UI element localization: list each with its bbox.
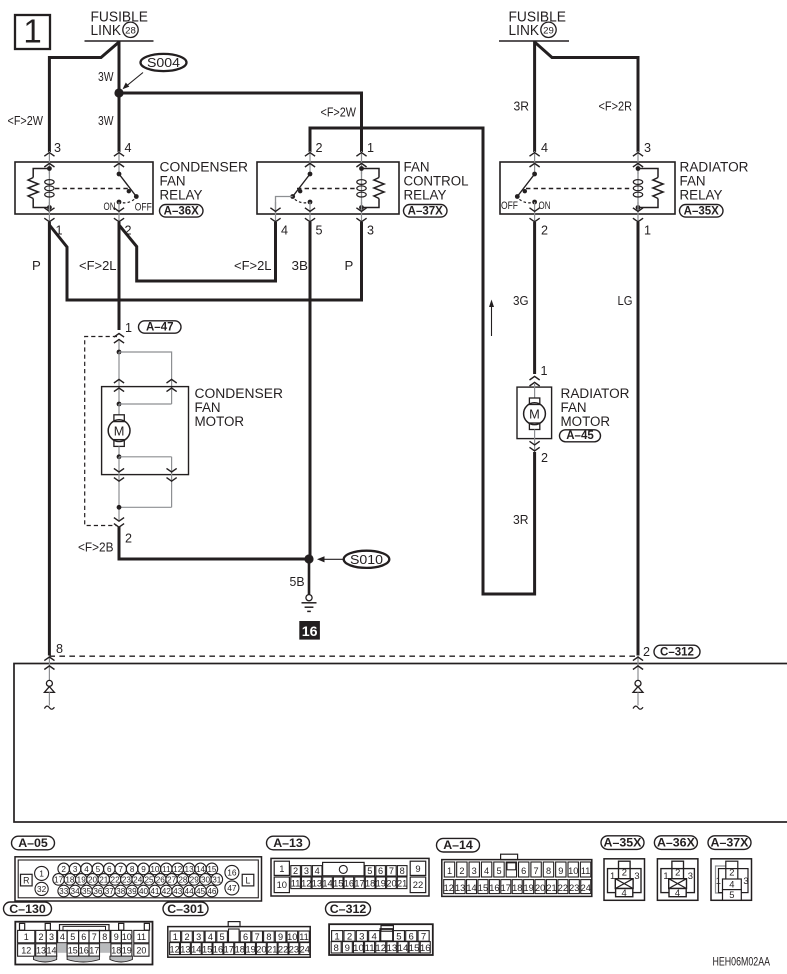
condenser motor pin chevrons bottom left — [118, 457, 120, 520]
svg-text:5: 5 — [729, 889, 734, 900]
svg-text:22: 22 — [558, 883, 568, 893]
svg-text:1: 1 — [23, 13, 41, 50]
fusible link 29 bar — [499, 40, 569, 42]
connector C-312 label — [326, 902, 371, 916]
condenser relay pin 1 — [48, 202, 50, 222]
motor M2 radiator — [524, 403, 546, 425]
condenser motor inner bottom junction — [117, 454, 122, 459]
svg-text:7: 7 — [534, 866, 539, 876]
svg-text:20: 20 — [386, 878, 396, 888]
svg-text:18: 18 — [365, 878, 375, 888]
svg-text:42: 42 — [162, 887, 172, 896]
svg-text:18: 18 — [235, 944, 245, 954]
svg-text:2: 2 — [293, 866, 298, 876]
svg-text:6: 6 — [107, 865, 112, 874]
relay A-37X fan control relay box — [257, 162, 399, 214]
svg-text:16: 16 — [420, 943, 431, 954]
svg-text:6: 6 — [378, 866, 383, 876]
condenser motor pin chevrons top left — [118, 352, 120, 404]
svg-text:ON: ON — [539, 200, 551, 212]
svg-text:<F>2L: <F>2L — [234, 258, 272, 273]
svg-text:1: 1 — [541, 364, 548, 378]
svg-text:FAN: FAN — [561, 400, 587, 415]
svg-text:35: 35 — [82, 887, 92, 896]
svg-text:1: 1 — [334, 932, 339, 943]
svg-text:S010: S010 — [350, 553, 383, 567]
svg-text:29: 29 — [190, 875, 200, 884]
radiator relay pin 4 — [534, 151, 536, 174]
radiator relay pin 1 — [637, 202, 639, 222]
connector chevrons pin 2 — [114, 524, 124, 528]
svg-text:21: 21 — [99, 875, 109, 884]
svg-text:1: 1 — [24, 932, 29, 942]
svg-text:1: 1 — [644, 223, 651, 237]
svg-text:A–35X: A–35X — [684, 205, 719, 217]
svg-text:14: 14 — [398, 943, 409, 954]
svg-text:11: 11 — [581, 866, 591, 876]
condenser relay pin 3 — [48, 151, 50, 174]
svg-text:HEH06M02AA: HEH06M02AA — [713, 956, 771, 969]
svg-text:7: 7 — [389, 866, 394, 876]
svg-text:A–14: A–14 — [443, 838, 473, 852]
svg-text:M: M — [114, 423, 125, 438]
svg-text:L: L — [246, 875, 251, 885]
svg-text:<F>2W: <F>2W — [8, 113, 44, 128]
connector A-05 body — [15, 857, 262, 901]
svg-text:38: 38 — [116, 887, 126, 896]
condenser relay coil and resistor — [48, 169, 50, 208]
svg-text:23: 23 — [569, 883, 579, 893]
svg-text:2: 2 — [316, 141, 323, 155]
svg-text:3: 3 — [49, 932, 54, 942]
svg-text:2: 2 — [38, 932, 43, 942]
condenser relay switch — [119, 174, 136, 197]
svg-text:1: 1 — [39, 869, 44, 879]
svg-text:28: 28 — [125, 25, 136, 36]
svg-text:10: 10 — [150, 865, 160, 874]
svg-text:16: 16 — [213, 944, 223, 954]
svg-text:39: 39 — [128, 887, 138, 896]
svg-text:36: 36 — [93, 887, 103, 896]
svg-text:2: 2 — [125, 531, 132, 545]
svg-text:LG: LG — [618, 293, 633, 308]
svg-text:5: 5 — [367, 866, 372, 876]
svg-text:2: 2 — [622, 866, 627, 877]
wire 3B fan control pin5 down — [309, 222, 312, 557]
svg-text:24: 24 — [300, 944, 310, 954]
svg-text:23: 23 — [289, 944, 299, 954]
svg-text:17: 17 — [224, 944, 234, 954]
svg-text:2: 2 — [184, 932, 189, 942]
ground reference 16 box — [300, 622, 320, 640]
wire LG radiator pin1 to bottom — [637, 222, 640, 656]
svg-text:9: 9 — [415, 863, 420, 874]
svg-text:13: 13 — [387, 943, 398, 954]
svg-text:16: 16 — [227, 868, 237, 878]
svg-text:RELAY: RELAY — [404, 187, 447, 202]
splice S004 callout — [141, 54, 187, 71]
svg-text:11: 11 — [137, 932, 146, 942]
svg-text:4: 4 — [281, 223, 288, 237]
svg-text:A–37X: A–37X — [711, 836, 750, 850]
svg-text:2: 2 — [643, 645, 650, 659]
svg-text:RADIATOR: RADIATOR — [561, 386, 630, 401]
radiator motor brush bottom — [529, 423, 539, 430]
connector A-14 body and pins — [442, 860, 592, 897]
svg-text:ON: ON — [104, 201, 116, 213]
svg-text:20: 20 — [256, 944, 266, 954]
svg-text:8: 8 — [546, 866, 551, 876]
svg-text:LINK: LINK — [91, 22, 122, 39]
svg-text:2: 2 — [541, 451, 548, 465]
svg-text:29: 29 — [543, 25, 554, 36]
svg-text:1: 1 — [663, 870, 668, 881]
svg-text:7: 7 — [118, 865, 123, 874]
svg-text:1: 1 — [447, 866, 452, 876]
svg-text:RELAY: RELAY — [160, 187, 203, 202]
svg-text:A–05: A–05 — [18, 836, 48, 850]
condenser motor brush top — [118, 404, 120, 415]
svg-text:21: 21 — [397, 878, 407, 888]
condenser motor top parallel wire — [119, 352, 172, 379]
svg-text:13: 13 — [312, 878, 322, 888]
wire S004 to fan control relay pin 1 — [120, 93, 362, 152]
svg-text:RELAY: RELAY — [680, 187, 723, 202]
svg-text:9: 9 — [141, 865, 146, 874]
svg-text:3B: 3B — [292, 258, 309, 273]
svg-text:16: 16 — [344, 878, 354, 888]
svg-text:20: 20 — [136, 946, 146, 956]
svg-text:10: 10 — [287, 932, 297, 942]
fan control relay pin 1 — [361, 151, 363, 174]
svg-text:A–36X: A–36X — [164, 205, 199, 217]
svg-text:9: 9 — [114, 932, 119, 942]
svg-text:6: 6 — [521, 866, 526, 876]
svg-text:32: 32 — [37, 885, 47, 894]
fan control relay pin 4 — [275, 202, 277, 222]
connector A-37X — [708, 836, 751, 850]
svg-text:13: 13 — [180, 944, 190, 954]
fan control relay control dashed link — [297, 188, 356, 190]
svg-text:C–312: C–312 — [330, 902, 367, 916]
svg-text:15: 15 — [478, 883, 488, 893]
dashed shield loop — [85, 337, 117, 526]
svg-text:17: 17 — [89, 946, 99, 956]
svg-text:<F>2B: <F>2B — [78, 539, 114, 554]
svg-text:A–37X: A–37X — [408, 205, 443, 217]
condenser motor brush bottom — [114, 440, 124, 447]
ECU box — [14, 664, 787, 823]
svg-text:3G: 3G — [513, 293, 529, 308]
svg-text:11: 11 — [162, 865, 171, 874]
connector C-301 label — [163, 902, 208, 916]
connector A-05 pins 16 and 47 — [225, 865, 239, 879]
radiator relay pin 2 — [534, 202, 536, 222]
relay A-36X condenser fan relay box — [15, 162, 153, 214]
left wire into ECU — [48, 656, 50, 681]
svg-text:10: 10 — [277, 879, 287, 890]
wire to ground — [308, 561, 311, 595]
svg-text:6: 6 — [81, 932, 86, 942]
svg-text:6: 6 — [409, 932, 414, 943]
right wire into ECU — [637, 656, 639, 681]
svg-text:MOTOR: MOTOR — [195, 414, 245, 429]
connector A-13 body and pins — [271, 858, 429, 896]
svg-text:19: 19 — [376, 878, 386, 888]
svg-text:13: 13 — [455, 883, 465, 893]
wire branch to condenser relay pin 3 — [49, 42, 119, 152]
svg-text:3: 3 — [472, 866, 477, 876]
svg-text:8: 8 — [130, 865, 135, 874]
svg-text:47: 47 — [227, 883, 237, 893]
wire branch F2R to radiator relay pin 3 — [535, 42, 638, 152]
svg-text:44: 44 — [185, 887, 195, 896]
svg-text:A–45: A–45 — [566, 430, 594, 442]
svg-text:24: 24 — [581, 883, 591, 893]
svg-text:13: 13 — [185, 865, 195, 874]
svg-text:17: 17 — [501, 883, 511, 893]
connector A-47 chevrons — [114, 334, 124, 338]
svg-text:<F>2R: <F>2R — [599, 98, 633, 113]
svg-text:FAN: FAN — [195, 400, 221, 415]
wire F2B to splice S010 — [119, 527, 309, 559]
svg-text:18: 18 — [512, 883, 522, 893]
svg-text:12: 12 — [301, 878, 311, 888]
wire condenser pin2 to motor — [118, 222, 121, 330]
svg-text:5: 5 — [396, 932, 401, 943]
connector C-130 gray keys — [34, 956, 57, 962]
svg-text:3: 3 — [73, 865, 78, 874]
wire 3R from fusible link 29 — [533, 41, 536, 152]
svg-text:RADIATOR: RADIATOR — [680, 159, 749, 174]
svg-text:4: 4 — [208, 932, 213, 942]
svg-text:CONDENSER: CONDENSER — [160, 159, 249, 174]
motor A-45 radiator fan motor box — [517, 387, 552, 439]
radiator motor brush top — [534, 384, 536, 398]
svg-text:M: M — [529, 406, 540, 421]
fan control relay contact wire to pin 4 — [276, 197, 293, 215]
node S004 junction — [114, 88, 123, 97]
svg-text:33: 33 — [59, 887, 69, 896]
svg-text:31: 31 — [212, 875, 222, 884]
svg-text:20: 20 — [535, 883, 545, 893]
svg-text:8: 8 — [266, 932, 271, 942]
svg-text:4: 4 — [125, 141, 132, 155]
radiator relay pin 3 — [637, 151, 639, 174]
fusible link 28 bar — [85, 40, 154, 42]
node S010 junction — [304, 554, 313, 563]
svg-text:46: 46 — [207, 887, 217, 896]
connector A-05 pins 33-46 — [58, 885, 70, 897]
svg-text:14: 14 — [322, 878, 332, 888]
svg-text:3: 3 — [304, 866, 309, 876]
svg-text:3: 3 — [359, 932, 364, 943]
wire 3W from fusible link 28 — [118, 41, 121, 152]
condenser motor bottom parallel wire — [119, 506, 172, 508]
svg-text:1: 1 — [716, 875, 721, 886]
svg-text:8: 8 — [102, 932, 107, 942]
svg-text:23: 23 — [122, 875, 132, 884]
svg-text:40: 40 — [139, 887, 149, 896]
svg-text:10: 10 — [122, 932, 132, 942]
connector A-05 pins 17-31 — [53, 874, 65, 886]
svg-text:16: 16 — [79, 946, 89, 956]
wire P condenser pin1 to bottom — [48, 222, 51, 656]
svg-text:3: 3 — [634, 870, 639, 881]
svg-text:4: 4 — [372, 932, 378, 943]
svg-text:4: 4 — [484, 866, 489, 876]
svg-text:30: 30 — [201, 875, 211, 884]
radiator motor pin 2 — [530, 447, 540, 451]
connector A-05 label — [12, 836, 55, 850]
svg-text:8: 8 — [400, 866, 405, 876]
svg-text:4: 4 — [541, 141, 548, 155]
svg-text:<F>2W: <F>2W — [321, 104, 357, 119]
condenser relay pin 4 — [118, 151, 120, 174]
svg-text:22: 22 — [413, 879, 423, 890]
svg-text:3R: 3R — [513, 512, 529, 527]
svg-text:45: 45 — [196, 887, 206, 896]
svg-text:4: 4 — [675, 887, 680, 898]
condenser relay pin 2 — [118, 202, 120, 222]
svg-text:28: 28 — [178, 875, 188, 884]
svg-text:C–312: C–312 — [660, 646, 694, 658]
fan control relay pin 2 — [309, 151, 311, 174]
svg-text:6: 6 — [243, 932, 248, 942]
svg-text:A–35X: A–35X — [604, 836, 643, 850]
svg-text:1: 1 — [367, 141, 374, 155]
svg-text:4: 4 — [621, 887, 626, 898]
svg-text:1: 1 — [173, 932, 178, 942]
svg-text:12: 12 — [169, 944, 179, 954]
svg-text:A–47: A–47 — [146, 321, 174, 333]
svg-text:5: 5 — [316, 223, 323, 237]
connector C-301 body and pins — [168, 927, 310, 958]
svg-text:8: 8 — [56, 642, 63, 656]
svg-text:11: 11 — [365, 943, 375, 954]
connector A-05 pins 1 and 32 — [35, 866, 49, 880]
svg-text:14: 14 — [46, 946, 56, 956]
fan control relay coil and resistor — [361, 169, 363, 208]
svg-text:C–301: C–301 — [167, 902, 204, 916]
svg-text:<F>2L: <F>2L — [79, 258, 117, 273]
svg-text:9: 9 — [278, 932, 283, 942]
fan control relay pin 5 — [309, 202, 311, 222]
svg-text:3: 3 — [367, 223, 374, 237]
svg-text:5: 5 — [70, 932, 75, 942]
svg-text:2: 2 — [729, 867, 734, 878]
svg-text:12: 12 — [444, 883, 454, 893]
svg-text:26: 26 — [156, 875, 166, 884]
wire into condenser motor — [118, 341, 120, 352]
svg-text:19: 19 — [245, 944, 255, 954]
svg-text:3: 3 — [688, 870, 693, 881]
svg-text:11: 11 — [299, 932, 309, 942]
svg-text:18: 18 — [65, 875, 75, 884]
svg-text:3: 3 — [54, 141, 61, 155]
svg-text:11: 11 — [291, 878, 301, 888]
svg-text:14: 14 — [196, 865, 206, 874]
svg-text:21: 21 — [546, 883, 556, 893]
svg-text:18: 18 — [111, 946, 121, 956]
svg-text:34: 34 — [71, 887, 81, 896]
svg-text:CONDENSER: CONDENSER — [195, 386, 284, 401]
svg-text:R: R — [23, 875, 29, 885]
ground symbol — [306, 595, 312, 601]
wire 3G radiator pin2 to motor — [533, 222, 536, 374]
svg-text:3R: 3R — [514, 98, 530, 113]
svg-text:37: 37 — [105, 887, 115, 896]
svg-text:2: 2 — [347, 932, 352, 943]
svg-text:FAN: FAN — [404, 159, 430, 174]
svg-text:2: 2 — [61, 865, 66, 874]
svg-text:3: 3 — [644, 141, 651, 155]
svg-text:25: 25 — [144, 875, 154, 884]
svg-text:P: P — [32, 258, 41, 273]
svg-text:22: 22 — [278, 944, 288, 954]
svg-text:FAN: FAN — [680, 173, 706, 188]
svg-text:MOTOR: MOTOR — [561, 414, 611, 429]
svg-text:A–36X: A–36X — [657, 836, 696, 850]
svg-text:22: 22 — [111, 875, 121, 884]
svg-text:C–130: C–130 — [9, 902, 46, 916]
svg-text:3W: 3W — [98, 113, 114, 128]
condenser relay control dashed link — [55, 188, 128, 190]
svg-text:17: 17 — [54, 875, 64, 884]
svg-text:3: 3 — [196, 932, 201, 942]
connector A-14 label — [437, 838, 480, 852]
wire F2W fan control pin 2 loop — [310, 128, 535, 594]
svg-text:7: 7 — [92, 932, 97, 942]
fan control relay switch — [293, 174, 310, 197]
svg-text:A–13: A–13 — [273, 836, 303, 850]
svg-text:9: 9 — [345, 943, 350, 954]
svg-text:21: 21 — [267, 944, 277, 954]
svg-text:7: 7 — [255, 932, 260, 942]
svg-text:3W: 3W — [98, 69, 114, 84]
svg-text:7: 7 — [421, 932, 426, 943]
svg-text:2: 2 — [541, 223, 548, 237]
svg-text:10: 10 — [353, 943, 364, 954]
svg-text:17: 17 — [354, 878, 364, 888]
svg-text:14: 14 — [191, 944, 201, 954]
page number box 1 — [15, 15, 50, 49]
condenser motor inner top junction — [117, 402, 122, 407]
svg-text:8: 8 — [334, 943, 339, 954]
svg-text:12: 12 — [375, 943, 386, 954]
condenser motor pin chevrons top right — [171, 379, 173, 404]
svg-text:12: 12 — [21, 946, 31, 956]
svg-text:15: 15 — [202, 944, 212, 954]
svg-text:4: 4 — [315, 866, 320, 876]
svg-text:20: 20 — [88, 875, 98, 884]
svg-text:19: 19 — [77, 875, 87, 884]
wire F2L condenser pin2 to fan control pin4 — [119, 222, 276, 281]
svg-text:P: P — [345, 258, 354, 273]
condenser motor pin chevrons bottom right — [171, 457, 173, 508]
connector A-13 label — [267, 836, 310, 850]
svg-text:5: 5 — [96, 865, 101, 874]
svg-text:5: 5 — [496, 866, 501, 876]
svg-text:12: 12 — [173, 865, 183, 874]
wire P condenser pin1 to fan control pin3 — [49, 222, 361, 300]
svg-text:2: 2 — [675, 866, 680, 877]
svg-text:S004: S004 — [147, 56, 180, 70]
svg-text:15: 15 — [333, 878, 343, 888]
connector A-35X — [601, 836, 644, 850]
radiator relay control dashed link — [526, 188, 630, 190]
svg-text:16: 16 — [489, 883, 499, 893]
